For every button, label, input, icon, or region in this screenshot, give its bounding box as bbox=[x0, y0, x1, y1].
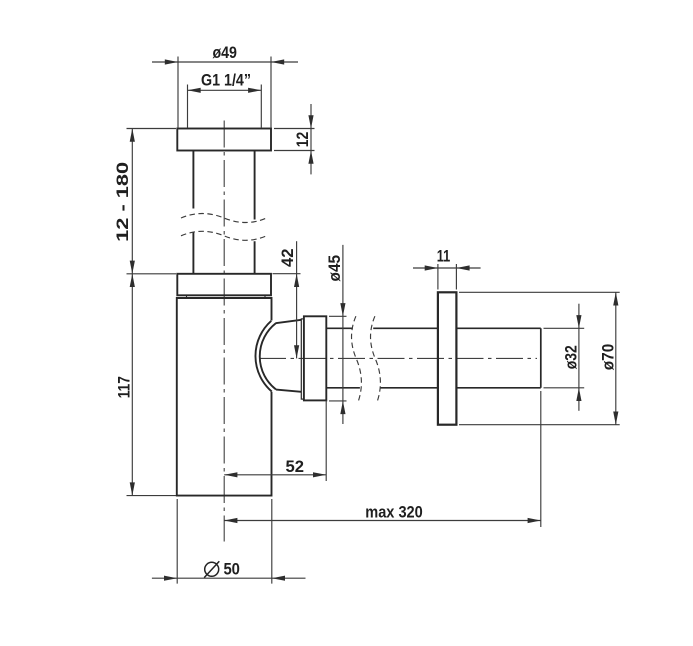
dimension 12-180 arrows bbox=[130, 129, 135, 142]
svg-text:ø49: ø49 bbox=[212, 43, 237, 62]
dimension 12-180 line bbox=[131, 129, 133, 274]
dimension ø45 extension lines bbox=[329, 316, 347, 401]
dimension 42 arrows bbox=[294, 274, 299, 287]
svg-text:11: 11 bbox=[437, 247, 451, 266]
dimension ø49 line bbox=[152, 61, 298, 63]
dimension dia50 line bbox=[152, 577, 306, 579]
dimension ø32 arrows bbox=[576, 315, 581, 328]
dimension max 320 extension line bbox=[540, 391, 542, 527]
dimension ø70 extension lines bbox=[459, 292, 620, 424]
pipe break wavy line left bbox=[352, 316, 362, 401]
dimension 12 arrows bbox=[308, 115, 313, 128]
outlet washer strip bbox=[301, 319, 304, 399]
inlet tube left edge bbox=[192, 151, 194, 274]
dimension dia50 arrows bbox=[164, 576, 177, 581]
dimension ø49 arrows bbox=[165, 59, 178, 64]
dimension ø70 line bbox=[615, 292, 617, 424]
dimension dia50 symbol bbox=[205, 562, 219, 576]
svg-text:42: 42 bbox=[278, 249, 297, 268]
trap body outline bbox=[177, 298, 272, 496]
dimension ø45 arrows bbox=[340, 303, 345, 316]
outlet pipe bottom edge bbox=[326, 387, 541, 389]
dimension 52 arrows bbox=[224, 472, 237, 477]
svg-text:G1 1/4”: G1 1/4” bbox=[201, 70, 251, 89]
inlet flange (top ring) bbox=[177, 129, 271, 151]
gasket step ticks under nut bbox=[187, 295, 266, 298]
dimension ø32 line bbox=[578, 304, 580, 411]
dimension 42 extension line bbox=[273, 273, 301, 275]
svg-text:117: 117 bbox=[115, 376, 134, 398]
dimension 42 line bbox=[296, 241, 298, 358]
dome bottom connector line bbox=[276, 390, 301, 392]
svg-text:52: 52 bbox=[286, 457, 305, 476]
outlet nut bbox=[304, 316, 326, 400]
svg-text:12: 12 bbox=[293, 132, 312, 148]
outlet dome outer arc bbox=[255, 321, 271, 392]
svg-text:12 - 180: 12 - 180 bbox=[113, 162, 132, 242]
dimension 12 line bbox=[310, 104, 312, 174]
dimension ø70 arrows bbox=[613, 292, 618, 305]
outlet pipe top edge bbox=[326, 327, 541, 329]
tube break wavy line upper bbox=[181, 214, 267, 223]
wall flange bbox=[438, 292, 457, 424]
dimension 11 extension lines bbox=[438, 264, 457, 290]
svg-text:ø70: ø70 bbox=[598, 344, 617, 371]
dimension G1 1/4 arrows bbox=[188, 88, 201, 93]
svg-text:ø45: ø45 bbox=[325, 255, 344, 282]
dimension max 320 line bbox=[224, 520, 541, 522]
svg-text:50: 50 bbox=[223, 560, 240, 579]
dimension max 320 arrows bbox=[224, 518, 237, 523]
dimension 117 arrows bbox=[130, 274, 135, 287]
outlet dome inner arc bbox=[260, 323, 276, 389]
dimension 11 arrows bbox=[425, 265, 438, 270]
dimension 52 line bbox=[224, 474, 326, 476]
dimension G1 1/4 extension lines bbox=[188, 85, 262, 128]
dimension ø49 extension lines bbox=[178, 57, 271, 128]
outlet pipe end edge bbox=[540, 328, 542, 388]
dimension dia50 extension lines bbox=[177, 499, 272, 584]
dimension ø32 extension lines bbox=[544, 328, 585, 388]
dimension G1 1/4 line bbox=[188, 89, 262, 91]
dimension 12-180 extension lines bbox=[127, 129, 177, 496]
compression nut bbox=[177, 274, 271, 296]
pipe break wavy line right bbox=[371, 316, 381, 401]
dome top connector line bbox=[276, 320, 302, 323]
inlet tube right edge bbox=[254, 151, 256, 274]
dimension 11 line bbox=[413, 267, 481, 269]
vertical centerline of trap body bbox=[223, 121, 225, 542]
dimension ø45 line bbox=[342, 245, 344, 424]
tube break wavy line lower bbox=[181, 231, 267, 240]
horizontal centerline of outlet pipe bbox=[259, 357, 537, 359]
dimension 52 extension line bbox=[325, 400, 327, 481]
dimension 117 line bbox=[131, 274, 133, 496]
dimension 12 extension lines bbox=[274, 129, 315, 151]
svg-text:ø32: ø32 bbox=[562, 345, 581, 369]
svg-text:max 320: max 320 bbox=[365, 503, 423, 522]
